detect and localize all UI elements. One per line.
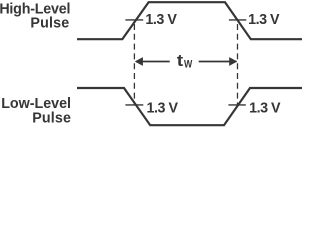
svg-text:t: t bbox=[177, 52, 184, 70]
svg-text:1.3 V: 1.3 V bbox=[147, 100, 179, 116]
svg-text:1.3 V: 1.3 V bbox=[145, 12, 177, 28]
svg-text:Pulse: Pulse bbox=[30, 16, 69, 32]
svg-text:1.3 V: 1.3 V bbox=[249, 101, 281, 117]
svg-text:W: W bbox=[184, 59, 193, 71]
svg-text:1.3 V: 1.3 V bbox=[248, 12, 280, 28]
svg-text:Pulse: Pulse bbox=[32, 111, 71, 127]
